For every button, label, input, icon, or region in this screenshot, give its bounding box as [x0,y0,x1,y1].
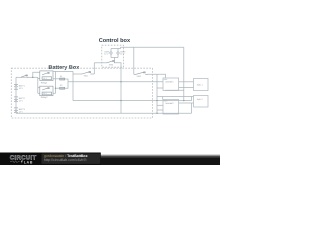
node dot D [183,100,184,101]
node dot H [55,88,56,89]
svg-text:Relay2: Relay2 [41,96,49,99]
node dot G [32,77,33,78]
box speaker SP2 [194,96,209,108]
wire lamp2 stems [117,49,119,52]
wire top long y=47.5 [121,46,184,48]
wire relay2 blade pin feed [38,87,40,89]
battery BATT1 [14,84,18,89]
box speaker SP1 [194,79,209,91]
wire speaker B bottom pin riser [191,103,193,113]
wire long bottom y=113.2 [16,112,192,114]
wire vertical x=73 [72,71,74,100]
wire relay1 blade pin feed [33,72,40,77]
logo bolt [21,160,23,163]
wire switch2 feed from top [133,47,135,74]
footer user panel [42,154,101,164]
relay RLY2 [40,86,53,96]
wire relay2 left pin [38,92,40,94]
wire mid switch1 left [73,73,81,75]
battery BATT2 [14,97,18,102]
wire lamp rail bottom [111,57,118,59]
svg-text:Inverter2: Inverter2 [165,102,174,105]
svg-text:Relay1: Relay1 [41,82,49,85]
wire switch3 left [94,62,105,64]
svg-text:LAB: LAB [24,160,33,164]
wire vertical x=183.5 [183,47,185,100]
battery BATT3 [14,108,18,113]
wire switch3 right to drop [115,63,121,113]
switch SW2 [134,72,148,74]
logo waveform [10,161,20,163]
svg-text:Control box: Control box [99,37,131,44]
lamp LAMP2 [117,52,120,55]
fuse F2 [60,87,65,89]
svg-text:Inverter1: Inverter1 [165,81,174,84]
control box dashed border [102,45,124,67]
wire speaker B top pin [192,97,194,101]
wire lamp rail drop [114,58,116,63]
wire box2 right pin to speaker B [179,102,194,104]
battery switch wire left [16,76,20,78]
wire long y=81.7 [68,81,163,83]
wire speaker B top feed [157,96,192,98]
battery box dashed border [11,68,152,118]
box inverter U1 [163,78,179,91]
fuse F1 [60,78,65,80]
battery column wire top [15,77,17,84]
wire box1 to speaker A pin1 [179,81,194,83]
node dot E [156,113,157,114]
wire box1 lower-left pin [157,87,163,89]
svg-text:Switch1: Switch1 [21,76,27,79]
footer logo plate [0,153,101,166]
wire fuse1 to merge [65,79,68,82]
wire fuse2 to merge [65,84,68,88]
wire relay1 left pin [38,78,40,80]
wire fuse2 feed [56,87,60,89]
svg-text:12 V: 12 V [19,110,24,113]
svg-text:http://circuitlab.com/c6vb7t: http://circuitlab.com/c6vb7t [44,158,87,162]
wire batt2-batt3 [15,102,17,108]
switch SW1 mid [81,72,92,74]
node dot C [156,100,157,101]
wire switch2 right to box1 top [148,74,166,78]
box inverter U2 [163,100,179,115]
wire relay top rail to x=73 [56,70,74,72]
wire lamp1 stems [110,49,112,52]
switch SW3 [106,61,116,63]
wire box2 left pins [157,104,163,106]
wire switch3 left drop x=94.3 [93,63,95,74]
svg-text:Spkr 1: Spkr 1 [197,83,204,86]
wire lamp rail top [111,47,121,48]
svg-text:12 V: 12 V [19,87,24,90]
svg-text:12 V: 12 V [120,53,125,56]
wire vertical x=157 [156,74,158,113]
wire relay1 blade right pin [53,70,56,72]
node dot A [120,81,121,82]
lamp LAMP1 [110,52,113,55]
wire relay feed vertical [37,77,39,93]
wire box1 to speaker A pin2 [179,87,194,89]
wire box2 top entry [162,97,164,100]
svg-text:12 V: 12 V [104,53,109,56]
svg-text:12 V: 12 V [19,99,24,102]
wire merge stub [67,82,69,84]
wire relay right riser [55,71,57,93]
footer bar right with soft top [100,154,220,157]
wire battery switch right [28,76,38,78]
node dot B [120,100,121,101]
wire batt1-batt2 [15,89,17,97]
svg-text:Spkr 2: Spkr 2 [197,98,204,101]
wire relay1 right [53,78,60,80]
switch SW0 battery [20,75,28,77]
wire y=90.3 box1 bottom to x=183.5 [166,89,184,91]
wire long y=100.6 [73,100,192,102]
wire relay2 right [53,92,56,94]
relay RLY1 [40,71,53,81]
wire mid switch1 right [92,73,94,75]
wire batt3 bottom [15,112,17,115]
